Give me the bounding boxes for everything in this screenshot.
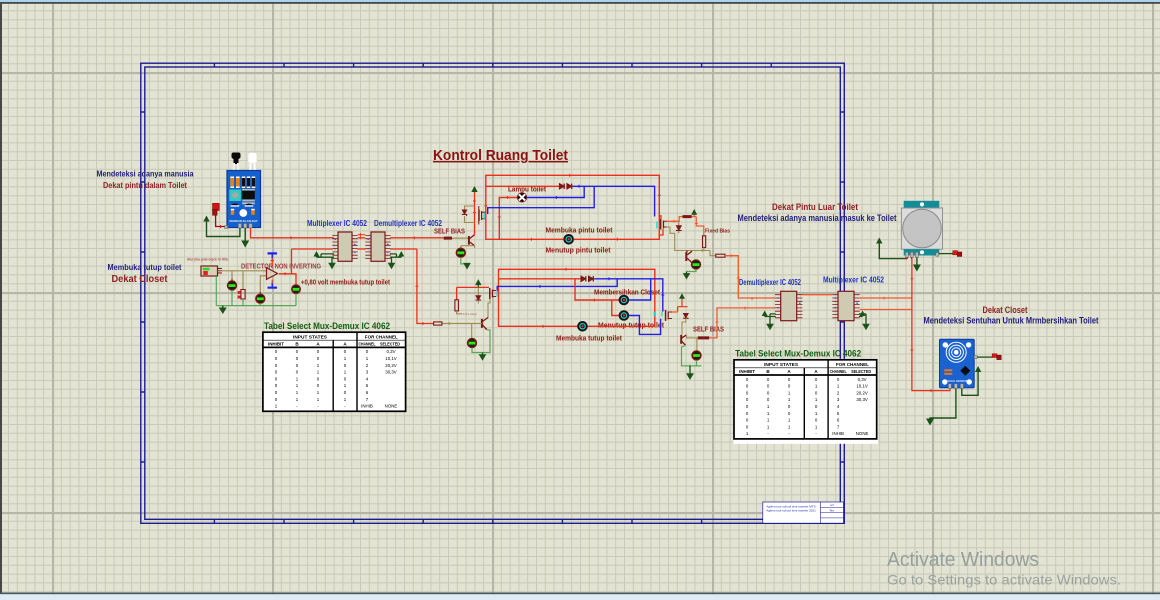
ground arrow (LED1) — [463, 263, 471, 270]
resistor R5 (hollow) — [434, 322, 442, 325]
MOSFET M2 — [656, 219, 666, 230]
svg-text:Demultiplexer IC 4052: Demultiplexer IC 4052 — [374, 219, 443, 228]
window bottom border — [0, 593, 1160, 595]
wire blue from lamp to supply line — [527, 186, 585, 197]
sensor module PCB — [227, 171, 261, 228]
svg-text:1/1: 1/1 — [830, 503, 834, 507]
wire green from pin1 left to power arrow — [207, 222, 240, 237]
wire light green LED5 to ground — [687, 269, 697, 271]
junction ticks on loop2 — [543, 268, 624, 328]
trimmer resistor — [238, 290, 245, 300]
svg-text:NONE: NONE — [385, 404, 398, 409]
svg-text:Dekat pintu dalam Toilet: Dekat pintu dalam Toilet — [103, 180, 187, 190]
PIR sensor module (right) — [901, 201, 942, 258]
resistor R1 (solid) — [444, 237, 452, 240]
LED6 indicator — [467, 338, 476, 347]
MOSFET M1 — [478, 206, 486, 225]
motor Membersihkan Closet — [619, 295, 629, 305]
diode D1 — [559, 184, 564, 189]
title block box — [763, 502, 844, 523]
ground arrow below U5 — [862, 318, 870, 330]
wire red signal bus y238 after U3 — [390, 237, 444, 239]
wire khaki Q3 emitter to LED5 — [692, 260, 696, 262]
wire red select bus y249 segments — [292, 248, 417, 250]
wire light green LED1 to ground — [461, 257, 467, 264]
sheet border bottom tick marks — [214, 519, 771, 523]
wire red lamp branch — [499, 198, 517, 240]
svg-text:20,2V: 20,2V — [385, 363, 397, 368]
motor Menutup tutup toilet — [619, 311, 629, 321]
svg-text:Dekat Pintu Luar Toilet: Dekat Pintu Luar Toilet — [772, 202, 858, 212]
LED2 indicator — [227, 279, 236, 293]
wire blue to M1 gate — [488, 186, 595, 214]
table 2 (duplicate, lower right) — [734, 359, 879, 444]
wire red inner supply line (loop2) — [499, 278, 582, 280]
window dark left border — [0, 2, 2, 593]
red LED indicator component — [213, 203, 220, 215]
power arrow up below U4 — [762, 311, 776, 319]
table 1 box — [263, 332, 406, 411]
ground arrow below U3 right — [388, 257, 396, 269]
wire red loop1 rectangle — [486, 175, 660, 239]
svg-text:Mendeteksi adanya manusia: Mendeteksi adanya manusia — [97, 169, 194, 179]
module pad (orange) right — [251, 209, 254, 215]
sheet border left tick marks — [141, 112, 145, 462]
wire khaki minus input / feedback — [260, 276, 266, 294]
wire khaki below R4 — [457, 311, 462, 314]
wire green power rail to PIR — [879, 244, 907, 259]
wire khaki R6 branch to LED7 — [696, 338, 698, 351]
svg-text:Dekat Closet: Dekat Closet — [112, 273, 168, 285]
wire red riser to select bus — [291, 249, 293, 274]
wire blue from diodes to M2 gate — [573, 186, 655, 216]
svg-text:Demultiplexer IC 4052: Demultiplexer IC 4052 — [739, 278, 802, 287]
sheet border inner rectangle — [145, 67, 841, 519]
wire orange R2 to power arrow — [692, 215, 697, 217]
power arrow up (R2) — [691, 209, 697, 215]
module left edge pad — [225, 226, 228, 229]
transistor Q1 — [469, 235, 475, 246]
power arrow up (M4 drain rail) — [678, 293, 688, 311]
svg-text:DETECTOR NON INVERTING: DETECTOR NON INVERTING — [241, 262, 321, 271]
svg-text:INHIBIT: INHIBIT — [268, 341, 284, 346]
ground arrow below U2 left — [328, 257, 336, 269]
resistor R4 (hollow, vertical) — [455, 300, 459, 311]
wire red to resistor R4 — [456, 287, 458, 299]
wire khaki M2 source bias chain — [667, 227, 711, 251]
zener diode D3 — [462, 210, 467, 216]
window bottom light strip — [0, 594, 1160, 600]
wire khaki branch to trimmer — [242, 271, 244, 289]
LED7 indicator — [692, 351, 701, 360]
light green ground rail — [216, 276, 296, 306]
transistor Q3 — [686, 251, 692, 263]
power arrow up (Q1 rail) — [471, 186, 477, 192]
svg-text:SELF BIAS: SELF BIAS — [434, 227, 465, 236]
svg-text:Membuka pintu toilet: Membuka pintu toilet — [546, 226, 614, 235]
touch sensor module PCB — [940, 339, 978, 388]
sheet border top tick marks — [214, 63, 771, 67]
wire red inner supply line — [486, 185, 560, 187]
resistor R2 (solid) — [683, 215, 692, 218]
module pad (orange) left — [231, 209, 234, 215]
svg-text:Go to Settings to activate Win: Go to Settings to activate Windows. — [887, 573, 1121, 588]
svg-text:Mendeteksi Sentuhan Untuk Mrmb: Mendeteksi Sentuhan Untuk Mrmbersihkan T… — [924, 316, 1099, 326]
window top light blue strip — [0, 0, 1160, 2]
wire red from module pin3 to bus — [251, 228, 335, 238]
module diode (black) 2 — [247, 177, 250, 189]
op-amp V- terminal (blue) — [268, 280, 278, 289]
svg-text:SENSOR.KI.AN.KAT: SENSOR.KI.AN.KAT — [229, 219, 258, 223]
module pin pads — [238, 224, 252, 229]
wire red Q1 collector rail — [474, 192, 476, 235]
wire green touch pin2 to ground — [930, 389, 956, 420]
module resistor R (orange) 1 — [230, 177, 234, 189]
wire orange U4 to U5 — [802, 294, 832, 296]
LED3 indicator — [292, 285, 301, 294]
wire green PIR to connector K1 — [939, 253, 953, 255]
svg-text:TOUCH SENSOR: TOUCH SENSOR — [945, 379, 967, 383]
wire blue right return — [629, 316, 661, 335]
wire khaki from R to Q4 base (tail of bus) — [442, 323, 475, 325]
wire blue motor2a right link — [629, 279, 651, 300]
svg-text:Agilent tour school time trave: Agilent tour school time traveler 2021 — [766, 508, 816, 512]
demultiplexer IC U3 body — [365, 232, 390, 261]
ground arrow below PIR pin3 — [913, 258, 921, 272]
transistor Q4 — [482, 318, 488, 330]
svg-text:30,3V: 30,3V — [385, 370, 397, 375]
ground arrow (Q5 rail) — [686, 366, 694, 380]
multiplexer IC U5 body — [832, 291, 859, 320]
svg-text:Mendeteksi adanya manusia masu: Mendeteksi adanya manusia masuk ke Toile… — [738, 213, 897, 223]
wire orange inter-IC link — [358, 234, 366, 236]
wire red PIR out riser to touch module — [912, 258, 950, 391]
motor Membuka tutup toilet — [578, 321, 588, 331]
motor Membuka pintu toilet — [563, 234, 574, 244]
MOSFET M3 — [489, 288, 498, 299]
svg-text:+0,80 volt membuka tutup toile: +0,80 volt membuka tutup toilet — [301, 280, 391, 287]
ground arrow on rail — [222, 306, 224, 309]
svg-text:CHANNEL: CHANNEL — [359, 341, 376, 346]
svg-text:Multiplexer IC 4052: Multiplexer IC 4052 — [823, 276, 885, 285]
wire khaki Q1 emitter to LED1 — [461, 246, 475, 250]
svg-text:Menutup pintu toilet: Menutup pintu toilet — [546, 246, 612, 255]
PIR pin marks — [906, 257, 912, 259]
ground arrow (LED6 rail) — [479, 353, 487, 361]
wire orange U5 to sensor riser — [860, 297, 912, 299]
wire red motor2b feed — [612, 300, 619, 316]
wire green touch module to connector K2 — [977, 356, 992, 358]
wire red loop2 rectangle — [499, 269, 655, 326]
IR LED black on module — [231, 153, 240, 173]
svg-text:Membuka tutup toilet: Membuka tutup toilet — [108, 262, 182, 272]
MOSFET M4 — [654, 310, 672, 321]
resistor R7 (hollow) — [716, 254, 725, 257]
wire green touch pin3 loop to power — [962, 372, 978, 396]
wire khaki Q4 base — [475, 323, 482, 325]
wire orange R7 to demux U4 riser — [725, 256, 775, 298]
wire khaki zener bias — [465, 206, 475, 223]
demultiplexer IC U4 body — [775, 291, 802, 320]
power arrow up (module) — [203, 216, 209, 222]
wire orange M4 drain — [672, 311, 678, 313]
wire maroon from indicator to module — [216, 215, 225, 226]
svg-text:Kontrol Ruang Toilet: Kontrol Ruang Toilet — [433, 148, 568, 164]
diode D2 — [567, 184, 572, 189]
wire khaki to op-amp plus input — [222, 270, 266, 272]
LED4 indicator — [256, 292, 265, 306]
svg-text:Dekat Closet: Dekat Closet — [983, 305, 1028, 315]
module IR receiver (teal) — [229, 190, 241, 202]
svg-text:SELECTED: SELECTED — [380, 341, 401, 346]
IR LED white on module — [248, 153, 257, 173]
zener diode D4 — [676, 221, 682, 233]
wire khaki branch bus to LED6 — [471, 324, 473, 339]
zener diode D7 — [683, 314, 689, 319]
wire khaki M3 source to Q4 — [488, 299, 490, 318]
sheet border right tick marks — [840, 112, 844, 462]
transistor Q5 — [681, 335, 686, 346]
wire light green Q5 emitter rail — [682, 345, 702, 366]
wire red loop edge jog into M2 — [659, 216, 664, 235]
wire khaki D7 to Q5 base — [682, 318, 686, 334]
svg-text:INPUT STATES: INPUT STATES — [293, 334, 327, 339]
wire khaki jog to R7 — [710, 251, 716, 256]
wire light green LED6 to Q4 emitter — [472, 330, 490, 353]
module resistor R (orange) 2 — [236, 177, 240, 189]
power arrow up (M3 feed) — [475, 279, 481, 287]
wire orange M2 drain to R2 — [667, 217, 683, 222]
svg-text:FOR CHANNEL: FOR CHANNEL — [365, 334, 398, 339]
wire khaki Q5 collector — [687, 335, 698, 338]
op-amp U1 — [267, 268, 278, 280]
svg-text:Rev: Rev — [830, 509, 835, 513]
power arrow up below U5 — [859, 311, 866, 319]
svg-text:Tabel Select Mux-Demux IC 4062: Tabel Select Mux-Demux IC 4062 — [264, 321, 390, 332]
svg-text:Activate Windows: Activate Windows — [887, 548, 1039, 571]
module potentiometer (white circle) — [239, 209, 247, 217]
wire orange U5 second output — [860, 309, 912, 311]
wire blue diodes to right mesh — [594, 279, 663, 312]
wire orange branch down to R3 — [696, 217, 704, 236]
power arrow up near U3 right — [390, 251, 404, 257]
wire red M3 power feed — [457, 286, 489, 288]
sheet border outer rectangle — [141, 63, 845, 523]
module capacitor lens 2 — [245, 204, 254, 207]
lamp Lampu toilet — [517, 193, 526, 202]
module diode (black) 3 — [252, 177, 255, 189]
diode D5 — [581, 276, 586, 281]
ground arrow below module pin2 — [244, 228, 246, 241]
svg-text:Multiplexer IC 4052: Multiplexer IC 4052 — [307, 219, 368, 228]
window dark top border — [0, 2, 1160, 4]
resistor R6 (solid) — [698, 336, 709, 339]
op-amp V+ terminal (blue) — [268, 252, 278, 267]
wire red riser to lower resistor — [417, 249, 434, 324]
node tick on maroon wire — [220, 225, 222, 228]
module IC chip — [242, 189, 255, 191]
module capacitor lens 1 — [231, 204, 240, 207]
connector K1 (red) — [953, 251, 962, 257]
wire blue gate line (loop2) — [497, 279, 617, 292]
resistor R3 (hollow, vertical) — [703, 236, 706, 248]
diode D6 — [589, 276, 594, 281]
zener diode D8 — [476, 287, 482, 303]
ground arrow (touch pin2) — [926, 419, 934, 426]
svg-text:INHIB: INHIB — [361, 404, 373, 409]
power arrow up (PIR rail) — [876, 238, 882, 244]
wire red motor2a feed — [575, 279, 619, 300]
wire red op-amp output — [279, 274, 296, 285]
wire khaki branch to LED2 — [231, 271, 233, 281]
junction ticks on loop1 — [484, 174, 661, 241]
ground arrow (LED5) — [683, 272, 691, 280]
connector K2 (red) — [992, 354, 1001, 360]
svg-text:SELF BIAS: SELF BIAS — [693, 325, 724, 334]
ground arrow below U4 — [766, 318, 774, 330]
svg-text:Fixed Bias: Fixed Bias — [705, 229, 730, 235]
sensor input box component — [201, 266, 222, 276]
module diode (black) 1 — [242, 177, 245, 189]
power arrow up (touch pin3) — [975, 366, 981, 372]
multiplexer IC U2 body — [332, 232, 357, 261]
wire red signal bus y238 between ICs — [358, 237, 366, 239]
wire khaki R1 to Q1 base — [452, 237, 468, 239]
LED1 indicator — [456, 248, 465, 257]
svg-text:10,1V: 10,1V — [385, 356, 397, 361]
svg-text:Atur jika grab objek tri litti: Atur jika grab objek tri littie — [187, 258, 228, 262]
wire orange R6 to demux U4 — [709, 308, 775, 338]
LED5 indicator — [691, 260, 700, 269]
svg-text:Membuka tutup toilet: Membuka tutup toilet — [556, 334, 623, 343]
junction tick — [290, 236, 292, 239]
power arrow up near U2 left — [314, 251, 335, 257]
svg-text:0,3V: 0,3V — [386, 349, 395, 354]
svg-text:0,5 k tutup: 0,5 k tutup — [463, 312, 477, 316]
